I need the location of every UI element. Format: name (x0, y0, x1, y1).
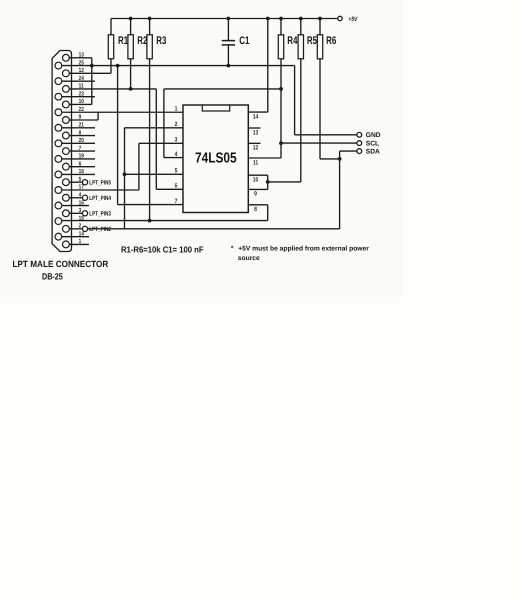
connector pin 13 circle (63, 54, 70, 61)
svg-text:LPT_PIN2: LPT_PIN2 (89, 226, 111, 233)
terminal LPT_PIN3 (82, 211, 87, 216)
wire IC pin14 stub (248, 111, 267, 113)
connector pin 15 circle (55, 218, 62, 225)
wire pin 24 stub (62, 80, 95, 82)
wire pin9 step up to pin22 row (97, 112, 99, 120)
junction rail/C1 (227, 17, 231, 21)
svg-text:R4: R4 (287, 35, 298, 47)
connector pin 2 circle (63, 225, 70, 232)
connector pin 11 circle (63, 86, 70, 93)
junction SDA vertical/IC pin5 row (123, 172, 127, 176)
svg-text:DB-25: DB-25 (42, 272, 63, 282)
wire pin 1 stub (69, 243, 89, 245)
wire IC pin4 row (164, 157, 183, 159)
wire SCL line to terminal (281, 142, 357, 144)
wire IC pin13 stub NC (248, 127, 260, 129)
connector pin 6 circle (63, 163, 70, 170)
svg-text:LPT MALE CONNECTOR: LPT MALE CONNECTOR (12, 259, 108, 269)
wire R1 bottom lead (110, 59, 112, 74)
terminal SDA (357, 149, 362, 154)
junction SDA vertical/R6 (338, 157, 342, 161)
resistor R1 (110, 19, 112, 35)
DB-25 male connector shell (52, 51, 71, 252)
svg-text:4: 4 (175, 151, 178, 158)
junction pin15 row/R3 (148, 219, 152, 223)
svg-text:R3: R3 (156, 35, 166, 47)
wire pin11 net vertical x156 (155, 89, 157, 189)
wire pin 23 stub (62, 96, 95, 98)
connector pin 10 circle (63, 101, 70, 108)
wire pin15 row to IC pin8 (62, 220, 268, 222)
wire R5 bottom lead (300, 59, 302, 182)
junction bracket/R5 wire (266, 180, 270, 184)
resistor R4 (280, 19, 282, 35)
wire R4 bottom lead (280, 59, 282, 158)
wire IC pin5 row (125, 173, 184, 175)
wire pin 4 row to LPT_PIN4 (69, 197, 82, 199)
svg-text:R1: R1 (118, 35, 128, 47)
capacitor C1 (227, 19, 229, 41)
wire pin12 to R1 (69, 72, 111, 74)
svg-text:LPT_PIN5: LPT_PIN5 (89, 179, 111, 186)
svg-text:11: 11 (253, 159, 259, 166)
junction R4/upper horizontal (279, 87, 283, 91)
svg-text:R2: R2 (137, 35, 147, 47)
wire pin10 row (69, 103, 92, 105)
connector pin 9 circle (63, 117, 70, 124)
svg-text:R1-R6=10k C1= 100 nF: R1-R6=10k C1= 100 nF (121, 244, 204, 254)
wire pin 6 stub (69, 166, 95, 168)
wire R2 bottom lead (130, 59, 132, 89)
connector pin 3 circle (63, 210, 70, 217)
connector pin 20 circle (55, 140, 62, 147)
wire pin 5 row to LPT_PIN5 (69, 181, 82, 183)
svg-text:6: 6 (175, 183, 178, 190)
wire GND drop to IC pin7 (117, 66, 119, 205)
wire IC pin10-pin9 bracket (267, 175, 269, 189)
wire SDA vertical x124 (124, 128, 126, 229)
wire IC pin10 stub (248, 174, 267, 176)
svg-text:12: 12 (253, 145, 259, 152)
svg-text:LPT_PIN4: LPT_PIN4 (89, 195, 111, 202)
wire GND net: pin25 to corner (62, 65, 295, 67)
svg-text:74LS05: 74LS05 (195, 151, 237, 167)
junction rail/R3 (148, 17, 152, 21)
op-amp U1: IC 74LS05 body (183, 105, 248, 213)
wire pin 20 stub (62, 142, 95, 144)
connector pin 4 circle (63, 194, 70, 201)
wire IC pin2 row (125, 127, 184, 129)
wire IC pin12 stub NC (248, 142, 260, 144)
wire pin 14 stub (62, 236, 89, 238)
wire R6 to SDA vertical (320, 158, 340, 160)
svg-text:R5: R5 (307, 35, 317, 47)
wire vertical x164 to IC pin4 (163, 89, 165, 158)
wire IC pin3 row (139, 142, 183, 144)
terminal LPT_PIN4 (82, 195, 87, 200)
svg-text:GND: GND (366, 132, 381, 139)
resistor R2 (130, 19, 132, 35)
connector pin 8 circle (63, 132, 70, 139)
wire pin13 row (69, 57, 92, 59)
connector pin 1 circle (63, 241, 70, 248)
svg-text:+5V: +5V (348, 16, 358, 23)
terminal LPT_PIN2 (82, 226, 87, 231)
wire IC pin8 drop (267, 205, 269, 221)
svg-text:14: 14 (253, 113, 259, 120)
wire R4 upper net horizontal (164, 88, 281, 90)
wire pin17 row (62, 189, 139, 191)
resistor R5 (300, 19, 302, 35)
wire pin 16 stub (62, 205, 89, 207)
connector pin 16 circle (55, 202, 62, 209)
wire pin2 row to LPT_PIN2 circle (69, 228, 82, 230)
terminal SCL (357, 141, 362, 146)
IC notch (202, 105, 229, 111)
svg-text:7: 7 (175, 198, 178, 205)
wire pin 19 stub (62, 158, 95, 160)
connector pin 23 circle (55, 93, 62, 100)
junction rail/pin14 wire (266, 17, 270, 21)
wire GND net to GND terminal (295, 134, 357, 136)
junction rail/R2 (129, 17, 133, 21)
wire SDA bottom row (88, 228, 340, 230)
svg-text:*: * (231, 246, 234, 253)
svg-text:+5V must be applied from exter: +5V must be applied from external power (238, 246, 369, 253)
svg-text:13: 13 (253, 129, 259, 136)
wire IC pin14 to +5V rail (267, 19, 269, 113)
wire pin13-pin10 bracket vertical (91, 58, 93, 105)
resistor R6 (319, 19, 321, 35)
connector pin 17 circle (55, 187, 62, 194)
svg-text:source: source (238, 255, 260, 262)
junction rail/R4 (279, 17, 283, 21)
terminal GND (357, 132, 362, 137)
svg-text:5: 5 (175, 168, 178, 175)
svg-text:9: 9 (254, 191, 257, 198)
connector pin 21 circle (55, 124, 62, 131)
svg-text:8: 8 (254, 206, 257, 213)
wire pin 21 stub (62, 127, 95, 129)
connector pin 22 circle (55, 109, 62, 116)
wire GND net vertical to terminal (294, 66, 296, 135)
scanned schematic area background (0, 0, 402, 297)
connector pin 18 circle (55, 171, 62, 178)
wire pin22 row to IC pin1 (62, 111, 183, 113)
wire +5V rail (111, 18, 337, 20)
wire R6 bottom lead (319, 59, 321, 159)
connector pin 14 circle (55, 233, 62, 240)
resistor R3 (149, 19, 151, 35)
junction R4 lead/SCL line (279, 141, 283, 145)
wire vertical x139 (138, 143, 140, 190)
connector pin 12 circle (63, 70, 70, 77)
svg-text:C1: C1 (239, 35, 249, 47)
connector pin 24 circle (55, 78, 62, 85)
wire IC pin9 stub (248, 188, 267, 190)
junction rail/R6 (318, 17, 322, 21)
svg-text:SDA: SDA (366, 149, 380, 156)
svg-text:LPT_PIN3: LPT_PIN3 (89, 211, 111, 218)
junction rail/R5 (299, 17, 303, 21)
wire R4 corner to IC pin11 (248, 157, 281, 159)
connector pin 7 circle (63, 148, 70, 155)
svg-text:3: 3 (175, 137, 178, 144)
wire bracket to R5 (268, 181, 301, 183)
svg-text:2: 2 (175, 121, 178, 128)
wire pin 3 row to LPT_PIN3 (69, 212, 82, 214)
wire SDA to terminal (340, 150, 357, 152)
junction GND/IC pin7 wire (116, 64, 120, 68)
junction GND/C1 (227, 64, 231, 68)
junction GND/pin13 bracket (90, 64, 94, 68)
connector pin 19 circle (55, 156, 62, 163)
svg-text:1: 1 (175, 105, 178, 112)
svg-text:R6: R6 (326, 35, 336, 47)
wire pin9 row (69, 119, 98, 121)
terminal +5V (338, 16, 342, 20)
wire R3 bottom lead (149, 59, 151, 221)
wire pin11 row (69, 88, 156, 90)
wire pin 8 stub (69, 135, 95, 137)
wire SDA vertical x340 (339, 151, 341, 229)
junction pin11 row/R2 (129, 87, 133, 91)
wire pin 18 stub (62, 173, 95, 175)
wire IC pin7 row (118, 204, 183, 206)
wire pin 7 stub (69, 150, 95, 152)
connector pin 5 circle (63, 179, 70, 186)
terminal LPT_PIN5 (82, 180, 87, 185)
wire IC pin6 row (156, 188, 183, 190)
wire IC pin8 stub (248, 204, 267, 206)
svg-text:10: 10 (253, 177, 259, 184)
svg-text:SCL: SCL (366, 141, 379, 148)
connector pin 25 circle (55, 62, 62, 69)
